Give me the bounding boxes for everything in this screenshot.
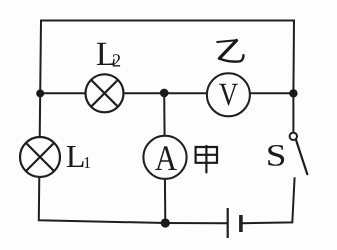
svg-text:V: V xyxy=(219,77,239,113)
svg-text:2: 2 xyxy=(112,52,121,72)
svg-text:1: 1 xyxy=(83,153,91,172)
svg-text:S: S xyxy=(266,137,287,172)
svg-text:A: A xyxy=(155,138,177,178)
